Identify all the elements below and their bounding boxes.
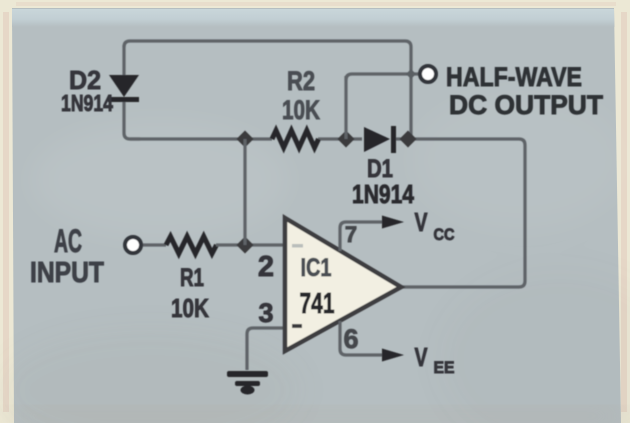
pink border tint bottom xyxy=(16,417,616,421)
minus mark inside op-amp xyxy=(292,324,302,328)
pink border tint right xyxy=(621,12,627,412)
terminal: half-wave dc output xyxy=(420,66,436,82)
svg-text:6: 6 xyxy=(343,324,358,354)
svg-text:3: 3 xyxy=(258,298,273,328)
svg-text:EE: EE xyxy=(434,358,455,377)
pink border tint top xyxy=(16,2,616,6)
wire: feedback vertical x=245 xyxy=(243,139,246,245)
node: junction left of R2 xyxy=(237,131,254,148)
node: junction input/feedback xyxy=(237,237,254,254)
node: junction right of D1 xyxy=(400,131,417,148)
svg-text:CC: CC xyxy=(434,225,455,244)
faint plus mark inside op-amp xyxy=(292,244,303,248)
svg-text:7: 7 xyxy=(345,222,357,247)
svg-text:V: V xyxy=(415,342,428,372)
wire: top loop from D2 cathode to feedback node xyxy=(124,41,411,139)
op-amp U1 triangle xyxy=(285,218,401,351)
wire: tap vertical x=346 xyxy=(344,76,347,139)
wire: D2 branch vertical and lower corner to main rail xyxy=(124,45,140,139)
wire: pin6 to Vee arrow xyxy=(340,321,384,355)
wire: output tap horizontal to terminal xyxy=(346,74,419,80)
wire: main rail y=139 xyxy=(130,139,525,287)
bluish top strip xyxy=(12,9,615,27)
svg-text:IC1: IC1 xyxy=(301,254,332,282)
svg-text:1N914: 1N914 xyxy=(61,90,113,116)
resistor R1 xyxy=(166,237,217,254)
svg-text:R1: R1 xyxy=(180,264,204,292)
svg-text:V: V xyxy=(415,207,428,237)
svg-text:1N914: 1N914 xyxy=(352,179,414,209)
svg-text:10K: 10K xyxy=(282,95,320,125)
wire: pin3 to ground xyxy=(247,328,285,370)
mottle shading xyxy=(0,90,630,423)
wire: input from terminal to R1 xyxy=(142,243,166,246)
svg-text:741: 741 xyxy=(300,288,335,320)
svg-text:DC OUTPUT: DC OUTPUT xyxy=(449,90,603,120)
svg-text:2: 2 xyxy=(258,251,274,283)
svg-text:INPUT: INPUT xyxy=(30,257,104,289)
node: junction right of R2 xyxy=(338,131,355,148)
pink border tint left xyxy=(3,12,9,412)
resistor R2 xyxy=(272,131,319,148)
wire: R1 to op-amp pin2 xyxy=(216,243,285,246)
svg-text:R2: R2 xyxy=(287,66,315,96)
diode D2 xyxy=(108,75,139,102)
svg-text:10K: 10K xyxy=(171,293,209,323)
svg-text:HALF-WAVE: HALF-WAVE xyxy=(446,62,582,92)
node: crossing tap/feedback xyxy=(406,69,416,79)
wire: pin7 to Vcc arrow xyxy=(340,222,384,251)
arrow: Vee xyxy=(382,349,404,362)
svg-text:AC: AC xyxy=(54,223,82,259)
diode D1 xyxy=(364,126,396,153)
warm bottom strip xyxy=(14,409,621,423)
terminal: ac input xyxy=(125,237,141,253)
arrow: Vcc xyxy=(382,216,404,229)
ground xyxy=(227,371,268,395)
